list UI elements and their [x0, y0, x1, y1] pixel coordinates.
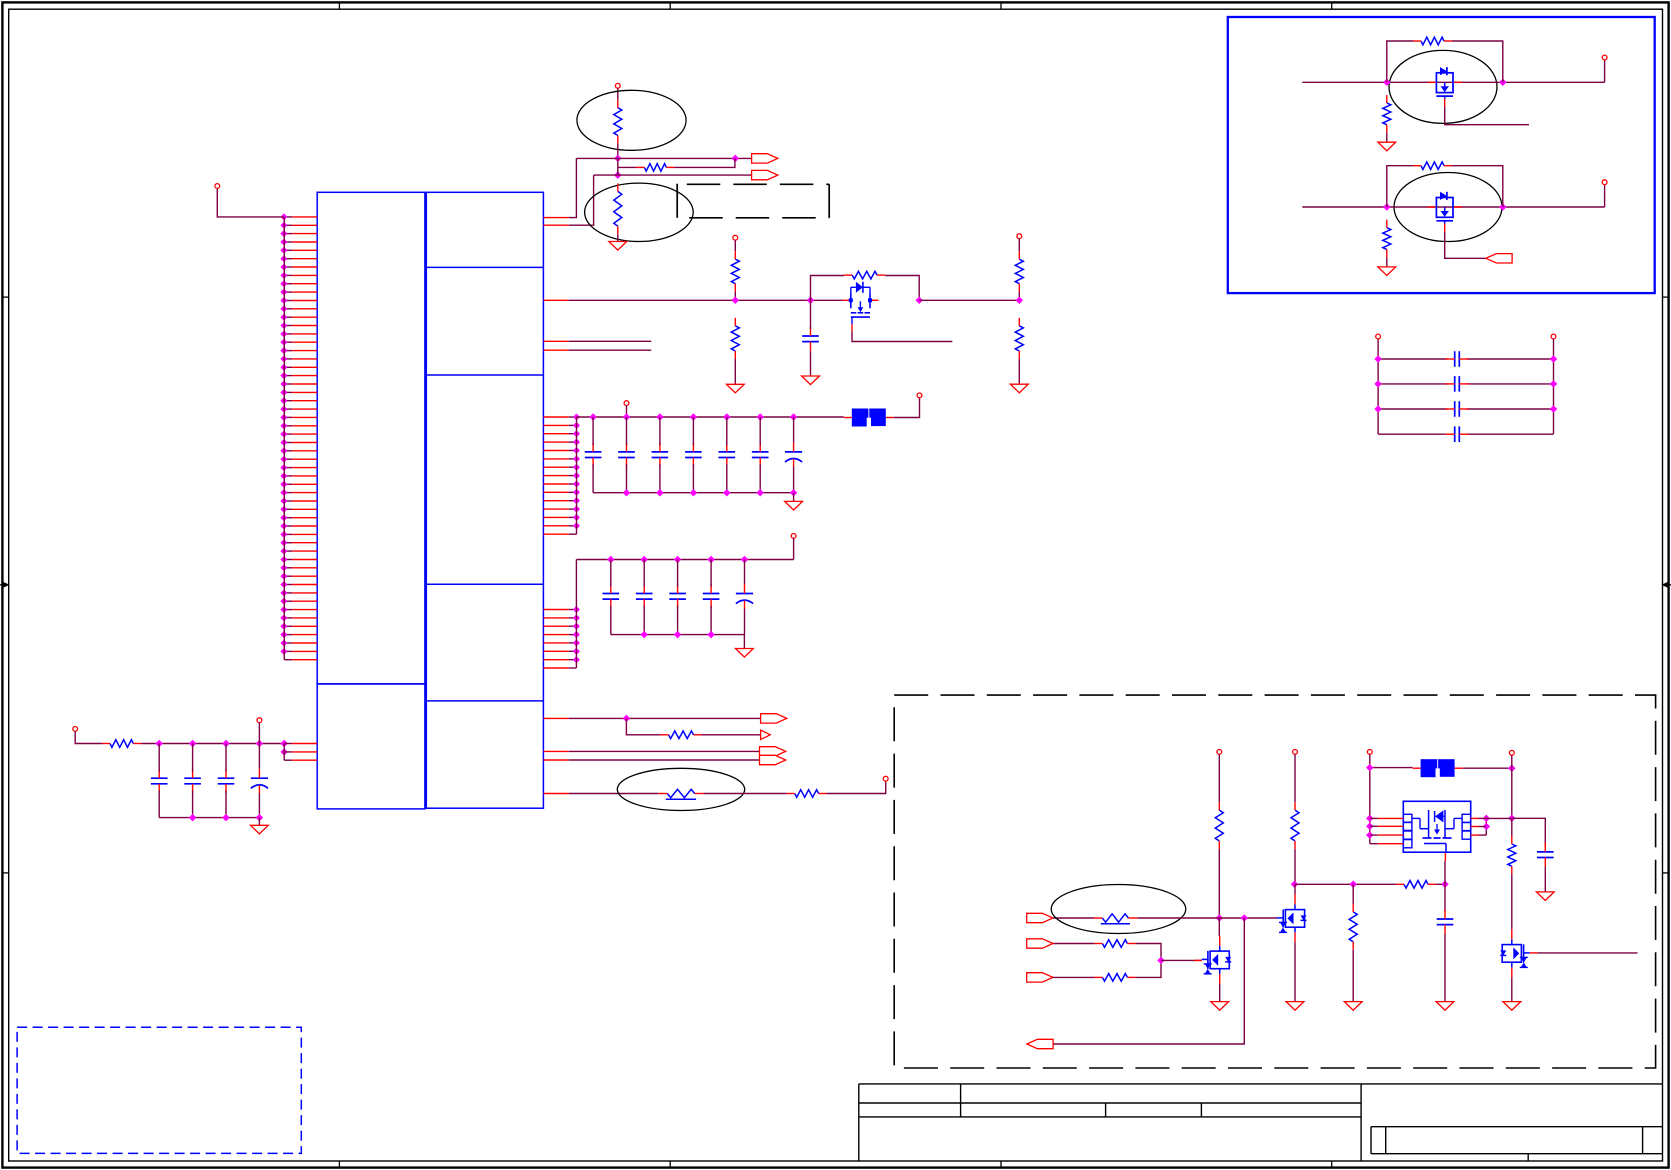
capacitor C22	[1437, 910, 1454, 935]
ellipse highlight lower switch	[1394, 173, 1502, 242]
power terminal P6	[917, 393, 922, 398]
connector arrow A6 right	[760, 755, 786, 764]
wire P10 drop	[258, 723, 260, 744]
resistor Rf9	[1413, 162, 1452, 170]
capacitor C15	[184, 744, 201, 818]
resistor R17	[1349, 904, 1357, 950]
wire Q3 gate loop	[1053, 944, 1161, 961]
feedback wire left 8	[1387, 41, 1413, 82]
node V9a	[1384, 204, 1390, 210]
wire terminal P1 to pin bus	[217, 188, 284, 217]
connector arrow A5 right	[760, 747, 786, 756]
mosfet Q1	[842, 282, 878, 332]
wire A7 row	[1053, 917, 1094, 919]
bl top rail junctions	[156, 741, 262, 747]
U1 pin stub wire a	[543, 340, 651, 342]
left border mid arrow	[0, 582, 10, 588]
thermistor RT1	[658, 789, 703, 799]
resistor R14	[1094, 940, 1135, 948]
node V8b	[1500, 79, 1506, 85]
capacitor C14	[151, 744, 168, 818]
mosfet Q9	[1428, 192, 1462, 232]
wire P3 to R4	[734, 240, 736, 251]
wire Q5 source to ground	[1511, 977, 1513, 1001]
ellipse highlight around R3	[585, 183, 694, 241]
wire N10 to Q3 drain	[1218, 918, 1220, 936]
ground symbol G7	[251, 825, 269, 834]
ground symbol G12	[1344, 1002, 1362, 1011]
thermistor RT2	[1093, 914, 1137, 924]
connector arrow A9 right	[1027, 973, 1053, 982]
U1 pin wire y793	[543, 793, 658, 795]
ground symbol G2	[726, 384, 744, 393]
wire FB2 out	[1463, 767, 1512, 769]
wire R9 to A4	[702, 734, 761, 736]
wire bl top rail	[141, 743, 284, 745]
wire U2 left bus	[1369, 754, 1371, 843]
resistor Rg9	[1383, 220, 1391, 258]
ellipse highlight upper switch	[1389, 50, 1497, 123]
wire V8 terminal drop	[1604, 60, 1606, 82]
ground symbol G14	[1536, 892, 1554, 901]
node N5 junction	[808, 297, 814, 303]
resistor R3	[614, 183, 622, 234]
resistor R5	[731, 318, 739, 359]
ground symbol G1	[609, 242, 627, 251]
node N1 junction	[615, 156, 621, 162]
bl bottom rail junctions	[190, 815, 263, 821]
ground symbol G9	[1378, 267, 1396, 276]
connector arrow A4 (triangle)	[761, 730, 771, 739]
capacitor C23	[1537, 842, 1554, 867]
wire to ground G6	[743, 635, 745, 649]
ground symbol G8	[1378, 142, 1396, 151]
wire R8 to ground	[1018, 359, 1020, 384]
power terminal P1 top-left	[215, 184, 220, 189]
capacitor C11	[669, 560, 686, 635]
resistor R12	[1215, 802, 1223, 849]
capacitor C13 (polarized)	[736, 560, 753, 635]
wire P4 to R7	[1018, 239, 1020, 252]
lower bottom rail junctions	[641, 632, 714, 638]
mosfet Q5	[1500, 929, 1530, 977]
ground symbol G11	[1286, 1002, 1304, 1011]
capacitor C18	[1445, 351, 1469, 367]
mosfet Q8	[1428, 67, 1462, 107]
mosfet Q3	[1202, 936, 1232, 984]
node N16 junction	[1367, 765, 1373, 771]
ground symbol G3	[802, 376, 820, 385]
wire R16 to N13	[1294, 849, 1296, 886]
wire upper pin bus	[576, 417, 578, 534]
feedback loop wire right	[885, 276, 919, 301]
capacitor C21	[1445, 426, 1469, 442]
wire P2 to R1	[617, 88, 619, 100]
mosfet Q4	[1277, 894, 1307, 942]
capacitor C1	[802, 327, 819, 352]
lower top rail junctions	[608, 557, 748, 563]
wire N15 up to U2 gate	[1444, 852, 1446, 884]
capacitor C9	[603, 560, 620, 635]
capacitor C16	[218, 744, 235, 818]
ferrite bead FB2	[1413, 759, 1463, 777]
node N11 junction	[1241, 915, 1247, 921]
wire N1-N2	[617, 158, 619, 175]
capacitor C4	[652, 417, 669, 493]
power terminal V8	[1602, 55, 1607, 60]
wire N11 drop to A10	[1053, 918, 1244, 1044]
power terminal P10	[257, 718, 262, 723]
wire N18 right to C23	[1512, 818, 1546, 847]
wire Rg8 to ground	[1386, 133, 1388, 143]
wire Q9 gate	[1445, 232, 1513, 259]
wire R18 to N15	[1436, 883, 1445, 885]
feedback wire right 9	[1452, 166, 1503, 207]
load switch U2	[1403, 801, 1470, 852]
ellipse highlight around R1	[577, 90, 686, 150]
power terminal P9	[73, 727, 78, 732]
node N15 junction	[1442, 881, 1448, 887]
capacitor C8 (polarized)	[785, 417, 802, 493]
wire net rail1 y158	[576, 157, 751, 159]
wire N18 down to R19	[1511, 818, 1513, 836]
node N17 junction	[1509, 765, 1515, 771]
ground symbol G13	[1436, 1002, 1454, 1011]
node N8 junction	[624, 716, 630, 722]
rail 3 junction dots	[1375, 406, 1556, 412]
wire rail y884	[1295, 883, 1397, 885]
wire P5 stub	[626, 406, 628, 418]
ground symbol G10	[1211, 1002, 1229, 1011]
power terminal P11	[1376, 334, 1381, 339]
wire R10 to terminal	[827, 781, 886, 793]
wire rail2 left drop to U1 pin	[543, 175, 593, 225]
wire P13 down	[1218, 754, 1220, 802]
ground symbol G15	[1503, 1002, 1521, 1011]
capacitor C19	[1445, 376, 1469, 392]
connector arrow A1 right	[752, 154, 778, 163]
U1 right pin group upper (15 pins)	[543, 414, 579, 534]
U1 pin wire y760	[543, 759, 759, 761]
ellipse highlight around RT1	[617, 768, 744, 810]
wire lower cap bank bottom rail	[611, 634, 745, 636]
U1 pin wire row y300	[543, 299, 842, 301]
connector arrow A7 right	[1027, 913, 1053, 922]
title block	[859, 1084, 1663, 1161]
wire P9 to R11	[75, 731, 102, 743]
wire N6 to N7	[919, 299, 1019, 301]
wire P16 stub	[1511, 755, 1513, 768]
resistor Rf8	[1413, 37, 1452, 45]
wire N13 to Q4	[1294, 884, 1296, 894]
ferrite bead FB1	[844, 409, 894, 427]
resistor R16	[1291, 802, 1299, 849]
resistor Rg8	[1383, 95, 1391, 133]
wire cap rail 4	[1378, 433, 1553, 435]
connector arrow A2 right	[752, 170, 778, 179]
feedback wire left 9	[1387, 166, 1413, 207]
wire R4 to node N4	[734, 292, 736, 301]
U1 lower-left pin 3	[284, 759, 317, 761]
wire Q1 gate	[852, 331, 952, 341]
wire A9 row	[1053, 960, 1161, 977]
wire N5 to C1	[810, 300, 812, 329]
power terminal P13	[1217, 750, 1222, 755]
wire cap rail 1	[1378, 358, 1553, 360]
node N2 junction	[615, 172, 621, 178]
top rail junctions	[590, 414, 796, 420]
wire V9 terminal drop	[1604, 185, 1606, 207]
wire right caps left bus	[1377, 339, 1379, 434]
connector arrow A3 right	[761, 714, 787, 723]
U2 left pins	[1367, 816, 1403, 844]
wire V8 mid rail	[1302, 81, 1604, 83]
wire Q5 gate out	[1530, 952, 1638, 954]
power terminal P4	[1017, 234, 1022, 239]
feedback loop wire left	[811, 276, 845, 301]
U1 pin wire y751	[543, 750, 759, 752]
node N12 junction	[1158, 958, 1164, 964]
node N4 junction	[732, 297, 738, 303]
wire Q8 gate	[1445, 107, 1529, 125]
wire right caps right bus	[1553, 339, 1555, 434]
wire R5 to ground	[734, 359, 736, 384]
power terminal P14	[1293, 750, 1298, 755]
power terminal P3	[733, 235, 738, 240]
wire upper cap bank bottom rail	[593, 492, 794, 494]
wire C23 to ground	[1544, 867, 1546, 892]
blue highlight box	[1228, 17, 1655, 293]
wire cap rail 2	[1378, 383, 1553, 385]
blue dashed note box	[17, 1027, 301, 1153]
rail 1 junction dots	[1375, 356, 1556, 362]
connector block U1 left section	[317, 192, 425, 684]
right border mid arrow	[1662, 582, 1671, 588]
wire P15 to FB2	[1370, 767, 1413, 769]
feedback wire right 8	[1452, 41, 1503, 82]
connector block U1 lower-left section	[317, 684, 425, 809]
capacitor C12	[703, 560, 720, 635]
power terminal P15	[1367, 750, 1372, 755]
power terminal P12	[1551, 334, 1556, 339]
node N6 junction	[916, 297, 922, 303]
wire bl bottom rail	[159, 817, 259, 819]
power terminal P2	[615, 83, 620, 88]
dashed region box (black)	[894, 695, 1655, 1068]
wire Q3 source to ground	[1219, 984, 1221, 1002]
wire N17 down to N18	[1511, 768, 1513, 818]
wire R19 to Q5	[1511, 874, 1513, 929]
ground symbol G6	[736, 649, 754, 658]
wire lower cap bank top rail	[576, 559, 793, 561]
wire N12 to Q3 gate	[1161, 959, 1202, 961]
node N3 junction	[732, 156, 738, 162]
wire N15 down to C22	[1444, 884, 1446, 912]
wire RT1 to R10	[704, 793, 787, 795]
wire bl pin bus	[283, 744, 285, 761]
U1 left pin array (54 pins)	[281, 214, 317, 660]
wire R17 to ground	[1352, 950, 1354, 1002]
dashed annotation box (black)	[677, 184, 829, 218]
wire lower pin bus	[575, 560, 577, 669]
resistor R1	[614, 100, 622, 144]
U1 pin stub wire b	[543, 349, 651, 351]
power terminal P7	[791, 534, 796, 539]
wire upper cap bank top rail	[577, 416, 844, 418]
capacitor C7	[752, 417, 769, 493]
connector arrow A8 right	[1027, 939, 1053, 948]
U1 right pin group lower (8 pins)	[543, 607, 579, 668]
resistor R11	[102, 740, 141, 748]
rail 2 junction dots	[1375, 381, 1556, 387]
power terminal P5	[624, 401, 629, 406]
wire FB1 to terminal	[894, 398, 920, 418]
node N14 junction	[1350, 881, 1356, 887]
wire to ground G7	[258, 818, 260, 826]
resistor R9	[661, 731, 702, 739]
wire P14 down	[1294, 754, 1296, 802]
resistor R7	[1015, 251, 1023, 291]
U1 lower-left pin 2	[281, 749, 317, 755]
wire P7 drop	[793, 538, 795, 559]
wire R7 to node N7	[1018, 292, 1020, 301]
capacitor C6	[719, 417, 736, 493]
capacitor C20	[1445, 401, 1469, 417]
resistor R6	[844, 271, 885, 279]
capacitor C10	[636, 560, 653, 635]
resistor R15	[1094, 974, 1135, 982]
capacitor C5	[685, 417, 702, 493]
wire R17 top	[1352, 884, 1354, 904]
node N10 junction	[1216, 915, 1222, 921]
wire R3 to ground	[617, 234, 619, 241]
resistor R8	[1015, 318, 1023, 359]
resistor R19	[1508, 836, 1516, 874]
wire rail1 left drop to U1 pin	[543, 158, 576, 217]
connector block U1 right section	[426, 192, 543, 808]
wire to ground G5	[793, 493, 795, 502]
wire Rg9 to ground	[1386, 257, 1388, 267]
ground symbol G4	[1010, 384, 1028, 393]
wire N8 drop	[626, 718, 660, 734]
connector arrow A9 left	[1486, 254, 1512, 263]
wire net rail2 y175	[594, 174, 752, 176]
wire cap rail 3	[1378, 408, 1553, 410]
wire R1 to node N1	[617, 143, 619, 158]
ground symbol G5	[785, 501, 803, 510]
node N7 junction	[1016, 297, 1022, 303]
wire C22 to ground	[1444, 934, 1446, 1002]
power terminal P8	[883, 776, 888, 781]
ellipse highlight around RT2	[1051, 885, 1186, 934]
wire Q4 source to ground	[1294, 942, 1296, 1001]
bottom rail junctions	[624, 490, 797, 496]
resistor R10	[787, 790, 827, 798]
wire RT2 to Q4 gate	[1137, 917, 1277, 919]
wire C1 to ground	[810, 351, 812, 376]
wire R2 left to vertical	[618, 166, 636, 168]
node V9b	[1500, 204, 1506, 210]
node V8a	[1384, 79, 1390, 85]
resistor R18	[1396, 881, 1436, 889]
wire V9 mid rail	[1302, 206, 1604, 208]
capacitor C3	[618, 417, 635, 493]
wire R2 right jog up to N3	[674, 158, 735, 167]
U1 pin wire y718	[543, 717, 760, 719]
U2 right pins	[1471, 816, 1512, 836]
resistor R2	[636, 164, 674, 172]
node N18 junction	[1509, 815, 1515, 821]
resistor R4	[731, 251, 739, 291]
power terminal V9	[1602, 180, 1607, 185]
node N13 junction	[1292, 881, 1298, 887]
capacitor C17 (polarized)	[251, 744, 268, 818]
U1 lower-left pin 1	[281, 741, 317, 747]
capacitor C2	[585, 417, 602, 493]
connector arrow A10 left	[1027, 1039, 1053, 1048]
wire left pin bus	[283, 217, 285, 660]
power terminal P16	[1509, 750, 1514, 755]
wire R12 to N10	[1218, 849, 1220, 918]
